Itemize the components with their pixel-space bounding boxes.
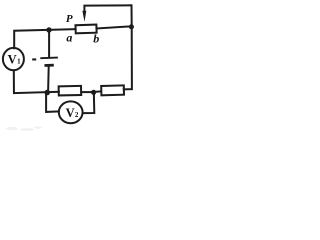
svg-text:1: 1 <box>17 58 21 66</box>
svg-text:2: 2 <box>75 111 79 119</box>
svg-text:P: P <box>66 13 73 25</box>
svg-text:b: b <box>93 31 99 45</box>
svg-text:a: a <box>66 30 72 44</box>
svg-text:V: V <box>66 106 75 120</box>
svg-text:V: V <box>8 52 17 66</box>
